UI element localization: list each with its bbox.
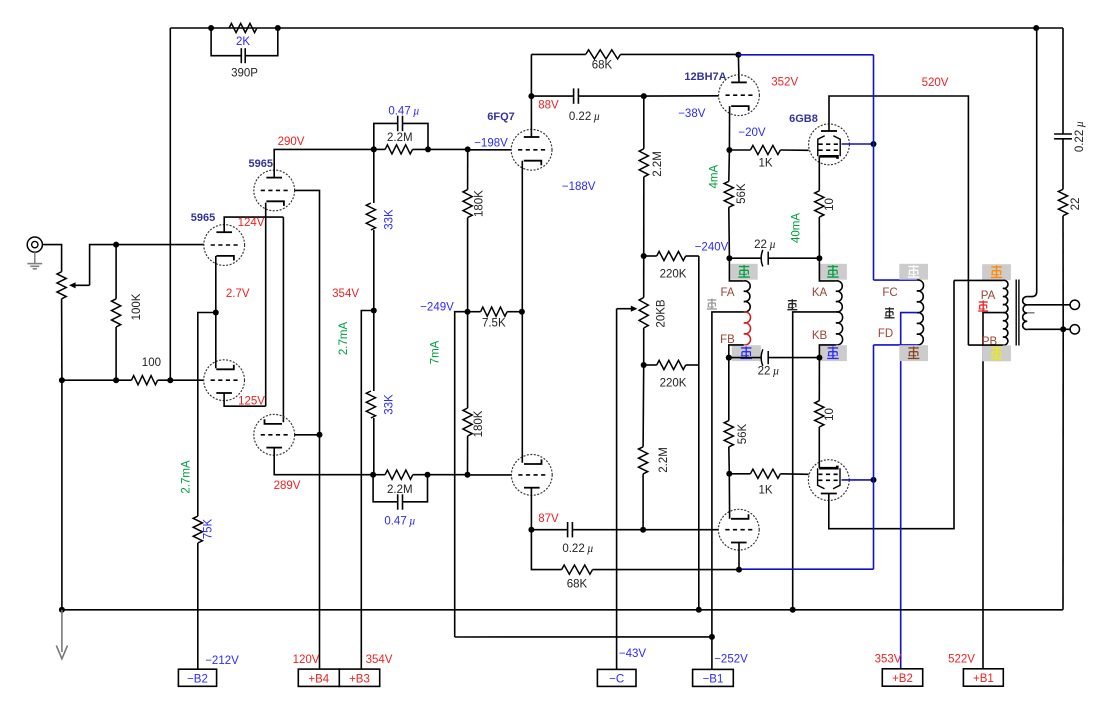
svg-text:520V: 520V xyxy=(922,77,949,89)
svg-text:124V: 124V xyxy=(238,217,265,229)
wire 100 to T3 grid xyxy=(158,379,204,381)
wire 220K lower right xyxy=(686,364,699,366)
node cathode line 7.5K xyxy=(519,309,525,315)
tube V1a 5965 (input LTP upper) xyxy=(204,225,245,266)
svg-text:390P: 390P xyxy=(231,68,258,80)
svg-text:2.2M: 2.2M xyxy=(387,484,413,496)
label FB xyxy=(720,334,735,346)
svg-text:2.2M: 2.2M xyxy=(658,447,670,473)
node pot bottom xyxy=(59,377,65,383)
node ground left xyxy=(59,607,65,613)
svg-text:+B2: +B2 xyxy=(892,673,913,685)
svg-text:10: 10 xyxy=(824,198,836,211)
label -249V xyxy=(420,302,454,314)
ground earth at jack xyxy=(27,252,42,269)
wire 33K lower to 289V wire xyxy=(373,418,375,475)
label 87V xyxy=(538,513,559,525)
label -20V xyxy=(738,127,766,139)
node lower 12BH7A grid feed xyxy=(640,527,646,533)
svg-text:2.2M: 2.2M xyxy=(652,151,664,177)
coil KB xyxy=(836,312,843,345)
label box green KA xyxy=(819,264,847,280)
wire secondary stub xyxy=(1027,312,1034,314)
tube V3a 6FQ7 upper xyxy=(511,129,552,170)
svg-text:1K: 1K xyxy=(758,158,772,170)
node feedback injection xyxy=(167,377,173,383)
wire T6 plate down xyxy=(530,488,532,530)
label 352V xyxy=(771,77,798,89)
node 100K bottom xyxy=(113,377,119,383)
label 354V bottom xyxy=(366,654,393,666)
svg-text:2.2M: 2.2M xyxy=(387,132,413,144)
terminal box -B1 xyxy=(693,669,734,686)
wire 7.5K right xyxy=(507,311,522,313)
resistor 56K lower xyxy=(724,421,749,447)
tube V2b 5965 (cascode lower, flipped) xyxy=(254,414,295,455)
wire T5 cathode line xyxy=(521,161,523,463)
wire FA top lead xyxy=(729,258,743,281)
terminal box -B2 xyxy=(178,669,216,686)
wire KB bottom lead xyxy=(819,345,836,358)
wire cross-rise to T2 cathode xyxy=(265,203,267,407)
label box yellow PB xyxy=(982,345,1011,361)
svg-text:0.47 µ: 0.47 µ xyxy=(384,516,415,528)
svg-text:33K: 33K xyxy=(384,209,396,230)
coil OPT primary PA xyxy=(1003,280,1008,312)
wire T3 plate to cross-rise xyxy=(224,393,266,406)
label 12BH7A xyxy=(684,71,726,83)
wire 1K upper leads xyxy=(729,149,808,151)
label PB xyxy=(982,336,998,348)
label 120V xyxy=(293,654,320,666)
label 2.7V xyxy=(226,288,250,300)
label 6FQ7 xyxy=(487,111,515,123)
svg-text:−188V: −188V xyxy=(562,181,596,193)
svg-text:FA: FA xyxy=(720,287,734,299)
wire 75K to -B2 xyxy=(197,543,199,669)
svg-text:522V: 522V xyxy=(948,653,975,665)
node screen upper xyxy=(871,141,877,147)
wire T5 plate up xyxy=(530,54,532,137)
resistor 220K upper xyxy=(644,251,687,280)
resistor 10 upper xyxy=(815,191,836,217)
wire secondary bottom xyxy=(1027,328,1070,330)
coil FA xyxy=(744,281,750,312)
resistor 100K xyxy=(112,293,144,327)
wire zobel top xyxy=(1062,28,1064,134)
svg-text:5965: 5965 xyxy=(191,212,215,224)
terminal output lower xyxy=(1070,325,1079,334)
node -20V xyxy=(726,147,732,153)
node 220K upper xyxy=(641,253,647,259)
wire T7 plate up xyxy=(737,55,740,83)
wire 2.2M lower leads xyxy=(642,365,645,530)
label 5965 V2a xyxy=(249,158,273,170)
resistor 2.2M coupling bottom xyxy=(373,470,413,496)
capacitor 0.47u top xyxy=(374,106,428,150)
svg-text:353V: 353V xyxy=(875,653,902,665)
resistor 2.2M grid lower xyxy=(639,447,670,474)
resistor 100 xyxy=(132,357,161,385)
resistor 33K lower xyxy=(366,391,395,418)
svg-text:−240V: −240V xyxy=(695,241,729,253)
wire pot wiper to grid line xyxy=(90,245,204,286)
resistor 180K lower xyxy=(463,408,485,437)
label 353V xyxy=(875,653,902,665)
label black kuro K-tap xyxy=(787,299,797,310)
wire 180K upper leads xyxy=(467,149,469,311)
coil FB (red) xyxy=(744,312,751,345)
wire 10 lower leads xyxy=(818,358,820,468)
wire T7 cathode down xyxy=(728,106,730,150)
node KB bottom junction xyxy=(816,355,822,361)
svg-text:289V: 289V xyxy=(274,480,301,492)
label 40mA xyxy=(791,213,803,243)
label -252V xyxy=(714,654,748,666)
label KB xyxy=(812,330,828,342)
wire cross-drop to T4 cathode xyxy=(282,217,284,422)
wire 68K upper leads xyxy=(531,53,738,55)
svg-text:10: 10 xyxy=(824,408,836,421)
node lower bias xyxy=(726,471,732,477)
node 2K right xyxy=(275,25,281,31)
node -B1 corner xyxy=(709,634,715,640)
svg-text:−C: −C xyxy=(609,673,624,685)
wire 180K lower leads xyxy=(467,312,469,475)
resistor 68K lower xyxy=(562,565,593,591)
capacitor 0.47u bottom xyxy=(373,475,427,528)
wire 56K upper leads xyxy=(728,150,731,258)
label 290V xyxy=(278,136,305,148)
node 352V junction xyxy=(735,52,741,58)
node 354V tap xyxy=(371,308,377,314)
label box green FA xyxy=(731,264,758,280)
wire T8 plate down xyxy=(738,543,740,570)
wire T1 plate to cross-drop xyxy=(224,217,283,232)
wire 2.2M upper leads xyxy=(643,96,645,297)
svg-text:6GB8: 6GB8 xyxy=(789,113,818,125)
label gray hai xyxy=(707,299,717,310)
wire to T6 grid xyxy=(468,474,512,476)
label -240V xyxy=(695,241,729,253)
wire left feedback drop xyxy=(169,28,171,380)
node coupling top right xyxy=(425,146,431,152)
terminal output upper xyxy=(1070,300,1079,309)
svg-text:290V: 290V xyxy=(278,136,305,148)
tube V4b 12BH7A lower (flipped) xyxy=(718,509,759,550)
wire -249V to -B1 drop xyxy=(455,312,468,637)
wire 20KB to 220K lower xyxy=(643,328,645,365)
wire pot bottom to ground rail xyxy=(61,380,63,610)
wire 290V node down xyxy=(373,149,375,203)
tube V1b 5965 (input LTP lower, flipped) xyxy=(204,360,245,401)
svg-text:22: 22 xyxy=(1070,198,1082,211)
tube V5a 6GB8 upper (pentode) xyxy=(809,124,850,165)
svg-text:22 µ: 22 µ xyxy=(758,366,780,378)
blue rail upper xyxy=(738,55,916,280)
svg-text:100: 100 xyxy=(142,357,161,369)
resistor 75K tail xyxy=(193,516,214,543)
svg-text:+B4: +B4 xyxy=(308,673,329,685)
wire FC tap to +B2 xyxy=(901,313,917,669)
label box white FC xyxy=(899,264,928,280)
capacitor 22u top xyxy=(729,239,819,266)
svg-text:7.5K: 7.5K xyxy=(482,318,506,330)
svg-text:2.7mA: 2.7mA xyxy=(181,460,193,494)
label KA xyxy=(812,287,828,299)
label -212V xyxy=(205,655,239,667)
label 522V xyxy=(948,653,975,665)
svg-text:PA: PA xyxy=(981,290,996,302)
wire bottom input rail xyxy=(62,379,132,381)
tube V3b 6FQ7 lower (flipped) xyxy=(511,455,552,496)
wire secondary return to ground xyxy=(1062,329,1064,610)
wire T2 plate to 290V xyxy=(274,149,374,177)
svg-text:KA: KA xyxy=(812,287,828,299)
wire FB bottom lead xyxy=(729,345,744,358)
wire secondary tap upper xyxy=(1027,304,1070,306)
coil FD xyxy=(917,313,924,345)
label FD xyxy=(878,328,893,340)
svg-text:22 µ: 22 µ xyxy=(754,239,776,251)
node 12BH7A grid feed xyxy=(641,93,647,99)
capacitor 0.22u bottom xyxy=(531,522,643,555)
svg-text:−43V: −43V xyxy=(619,648,647,660)
capacitor 0.22u zobel xyxy=(1054,121,1086,152)
ground arrow xyxy=(56,610,67,659)
svg-text:2.7V: 2.7V xyxy=(226,288,250,300)
tube V2a 5965 (cascode upper) xyxy=(254,170,295,211)
wire 56K lower leads xyxy=(728,358,731,474)
svg-text:180K: 180K xyxy=(473,410,485,437)
wire KA top lead xyxy=(819,258,836,281)
node FB bottom junction xyxy=(726,355,732,361)
wire to 12BH7A grid xyxy=(644,95,719,97)
svg-text:75K: 75K xyxy=(203,518,215,539)
svg-text:100K: 100K xyxy=(131,293,143,320)
potentiometer 20KB xyxy=(617,298,668,329)
svg-text:FC: FC xyxy=(882,287,897,299)
node coupling top left xyxy=(371,146,377,152)
label -198V xyxy=(474,138,508,150)
terminal box +B3 xyxy=(339,669,379,686)
wire screen blue lower xyxy=(842,479,874,481)
node lower cap left xyxy=(726,355,732,361)
wire ground rail xyxy=(62,609,1063,611)
svg-text:180K: 180K xyxy=(474,190,486,217)
node 180K bottom xyxy=(465,472,471,478)
svg-text:354V: 354V xyxy=(366,654,393,666)
node 180K top xyxy=(465,146,471,152)
wire T9 plate to 520V xyxy=(829,96,968,345)
wire 20KB wiper to -C xyxy=(616,309,618,670)
svg-text:7mA: 7mA xyxy=(430,340,442,364)
label box blue KB xyxy=(819,345,847,361)
svg-text:12BH7A: 12BH7A xyxy=(684,71,726,83)
label 88V xyxy=(538,100,559,112)
wire 220K bus xyxy=(698,256,700,610)
terminal box +B1 xyxy=(963,669,1003,686)
wire K tap to ground xyxy=(793,312,836,610)
wire screen blue upper xyxy=(842,143,874,145)
wire to 180K node xyxy=(413,148,468,150)
node 220K bus ground xyxy=(696,607,702,613)
resistor 68K upper xyxy=(586,50,621,72)
svg-text:68K: 68K xyxy=(592,59,613,71)
wire T10 plate to OPT xyxy=(829,280,954,528)
node screen lower xyxy=(871,477,877,483)
input jack J1 xyxy=(27,237,42,252)
resistor 10 lower xyxy=(815,401,836,427)
wire secondary feed from rail xyxy=(1027,28,1037,297)
wire 354V tap to +B3 xyxy=(361,311,374,670)
wire bias line to +B4 xyxy=(319,435,321,669)
node zobel secondary xyxy=(1060,326,1066,332)
svg-text:5965: 5965 xyxy=(249,158,273,170)
wire cathode to tail xyxy=(198,313,216,517)
label 289V xyxy=(274,480,301,492)
resistor 220K lower xyxy=(644,360,687,389)
svg-text:6FQ7: 6FQ7 xyxy=(487,111,515,123)
node 100K top xyxy=(113,242,119,248)
svg-text:87V: 87V xyxy=(538,513,559,525)
node coupling bottom right xyxy=(425,472,431,478)
svg-text:0.22 µ: 0.22 µ xyxy=(1074,121,1086,152)
label box brown FD xyxy=(899,345,928,361)
label 2.7mA tail xyxy=(181,460,193,494)
coil KA xyxy=(836,281,842,312)
svg-text:−38V: −38V xyxy=(678,108,706,120)
coil OPT primary PB xyxy=(1003,313,1008,346)
label 124V xyxy=(238,217,265,229)
label red aka xyxy=(978,301,988,312)
capacitor 390P xyxy=(211,28,278,80)
node 220K lower xyxy=(641,362,647,368)
svg-text:−B1: −B1 xyxy=(703,673,724,685)
svg-text:0.22 µ: 0.22 µ xyxy=(569,111,600,123)
wire T2 grid to bias line xyxy=(295,190,320,434)
label 7mA xyxy=(430,340,442,364)
blue rail lower xyxy=(739,345,917,569)
svg-text:1K: 1K xyxy=(758,485,772,497)
label box orange PA xyxy=(982,264,1011,280)
svg-text:56K: 56K xyxy=(737,423,749,444)
terminal box +B4 xyxy=(298,669,339,686)
svg-text:125V: 125V xyxy=(238,396,265,408)
coil FC xyxy=(917,280,924,313)
svg-text:120V: 120V xyxy=(293,654,320,666)
wire to lower 12BH7A grid xyxy=(643,529,718,531)
label box blue FB xyxy=(732,345,761,361)
resistor 2K xyxy=(229,23,257,48)
node -249V xyxy=(465,309,471,315)
svg-text:220K: 220K xyxy=(660,269,687,281)
svg-text:KB: KB xyxy=(812,330,828,342)
wire OPT primary top lead xyxy=(954,279,1003,281)
svg-text:−252V: −252V xyxy=(714,654,748,666)
core OPT xyxy=(1016,280,1019,346)
label 125V xyxy=(238,396,265,408)
wire zobel mid xyxy=(1062,139,1064,190)
resistor 7.5K xyxy=(468,307,508,329)
svg-text:2K: 2K xyxy=(236,36,250,48)
terminal box +B2 xyxy=(882,669,922,686)
node secondary rail xyxy=(1033,25,1039,31)
svg-text:354V: 354V xyxy=(332,288,359,300)
wire to T5 grid xyxy=(468,149,512,151)
svg-text:−198V: −198V xyxy=(474,138,508,150)
wire T8 cathode up xyxy=(728,474,730,519)
wire 220K upper right xyxy=(686,255,699,257)
wire T1 cathode xyxy=(215,256,217,313)
wire 10 upper to KA xyxy=(818,217,820,258)
wire T3 cathode up xyxy=(215,313,217,369)
label 354V left xyxy=(332,288,359,300)
wire T4 grid xyxy=(295,434,320,436)
node coupling bottom left xyxy=(370,472,376,478)
wire 33K upper to 354V node xyxy=(373,230,375,391)
svg-text:+B3: +B3 xyxy=(349,673,370,685)
terminal box -C xyxy=(597,669,636,686)
label 520V xyxy=(922,77,949,89)
wire pot bottom xyxy=(61,299,63,380)
label FA xyxy=(720,287,734,299)
svg-text:2.7mA: 2.7mA xyxy=(338,322,350,356)
svg-text:−B2: −B2 xyxy=(187,673,208,685)
wire -B1 horizontal xyxy=(455,636,712,638)
capacitor 0.22u top xyxy=(531,88,643,123)
wire jack to volume pot xyxy=(42,245,61,272)
node KA top xyxy=(816,255,822,261)
potentiometer VR1 input xyxy=(57,272,90,299)
wire 100K bottom xyxy=(115,327,117,380)
svg-text:4mA: 4mA xyxy=(709,165,721,189)
label PA xyxy=(981,290,996,302)
resistor 2.2M grid upper xyxy=(639,149,664,177)
wire zobel bottom xyxy=(1062,216,1064,330)
node 290V xyxy=(371,146,377,152)
svg-text:88V: 88V xyxy=(538,100,559,112)
node 2K left xyxy=(208,25,214,31)
svg-text:220K: 220K xyxy=(660,378,687,390)
svg-text:−20V: −20V xyxy=(738,127,766,139)
svg-text:−249V: −249V xyxy=(420,302,454,314)
svg-text:33K: 33K xyxy=(384,394,396,415)
wire OPT center tap to +B1 xyxy=(983,313,1003,669)
resistor 33K upper xyxy=(366,203,395,230)
resistor 56K upper xyxy=(724,181,748,207)
resistor 180K upper xyxy=(463,190,486,218)
svg-text:+B1: +B1 xyxy=(973,673,994,685)
label 4mA xyxy=(709,165,721,189)
coil OPT secondary xyxy=(1023,297,1028,330)
resistor 2.2M coupling top xyxy=(374,132,413,154)
svg-text:68K: 68K xyxy=(567,579,588,591)
wire 1K lower leads xyxy=(729,473,808,476)
node 88V xyxy=(528,93,534,99)
node lower plate junction xyxy=(736,567,742,573)
svg-text:0.22 µ: 0.22 µ xyxy=(562,543,593,555)
node K tap ground xyxy=(790,607,796,613)
wire T9 cathode down xyxy=(818,156,820,191)
label 6GB8 xyxy=(789,113,818,125)
label -43V xyxy=(619,648,647,660)
tube V4a 12BH7A upper xyxy=(719,75,760,116)
wire T4 plate to 289V xyxy=(274,447,373,475)
svg-text:FD: FD xyxy=(878,328,893,340)
node grid bias junction xyxy=(317,432,323,438)
svg-text:40mA: 40mA xyxy=(791,213,803,243)
